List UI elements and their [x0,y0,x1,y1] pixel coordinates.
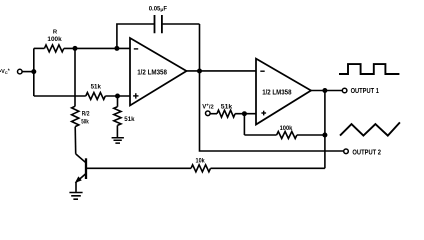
svg-text:1/2 LM358: 1/2 LM358 [262,89,291,96]
svg-text:51k: 51k [91,84,102,91]
svg-text:51k: 51k [124,116,135,123]
svg-text:OUTPUT 2: OUTPUT 2 [352,148,381,157]
svg-text:100k: 100k [47,37,62,43]
svg-text:R/2: R/2 [82,112,90,118]
svg-text:0.05μF: 0.05μF [149,7,168,14]
svg-text:R: R [53,29,58,35]
svg-text:•VC*: •VC* [0,68,10,75]
svg-text:V+/2: V+/2 [202,102,214,110]
svg-text:1/2 LM358: 1/2 LM358 [137,69,167,76]
svg-text:51k: 51k [221,104,233,111]
svg-text:OUTPUT 1: OUTPUT 1 [351,86,379,95]
svg-text:10k: 10k [196,159,206,165]
svg-text:100k: 100k [280,126,293,132]
svg-text:50k: 50k [81,119,89,125]
